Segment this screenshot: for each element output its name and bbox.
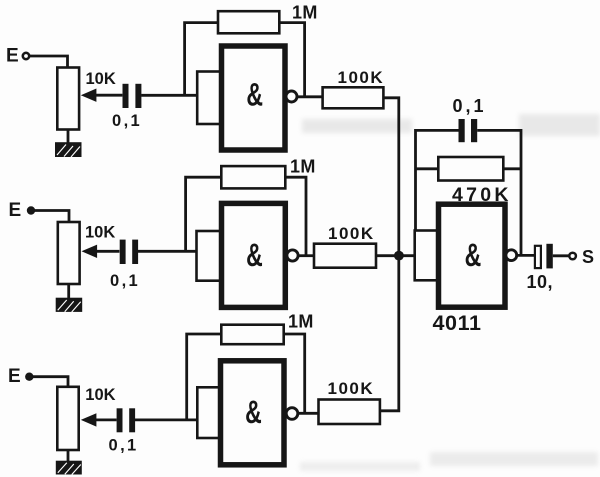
wire R9 to summing node [380,256,399,411]
wire U1a output to R3 [297,95,322,98]
svg-text:4011: 4011 [433,311,482,335]
gate U1b body [222,203,286,307]
wire R6 to final gate input [376,254,415,257]
wire C2 to gate U1b input [138,250,198,253]
junction summing node [394,251,404,261]
resistor R2 1M body [218,11,279,33]
feedback wire right R8 to output [284,334,305,413]
ghost smudge bottom [300,452,598,471]
gate U1b symbol & [246,237,263,273]
label 0,1 (C3) [109,437,139,455]
label 1M (R5) [290,156,316,176]
resistor R3 100K body [323,87,384,108]
label 10K (P2) [85,224,115,242]
gate U2 output bubble [506,250,517,261]
wire P2 to ground [67,284,70,298]
ground GND2 [56,298,82,312]
label 100K (R6) [328,224,375,243]
feedback wire right R5 to output [285,177,306,255]
svg-text:1M: 1M [292,2,318,22]
label 10, (C8) [527,272,554,292]
terminal S [569,253,576,260]
feedback wire left R8 [187,334,222,420]
capacitor C1 0,1 [123,84,142,108]
ground GND1 [55,142,82,157]
node E3 label [8,366,21,387]
resistor R6 100K body [314,244,376,268]
capacitor C2 0,1 [120,240,138,264]
feedback wire left R5 [186,177,222,251]
label 4011 (U2) [433,311,482,335]
capacitor C7 0,1 top [459,119,478,142]
label 10K (P1) [86,70,116,88]
capacitor C3 0,1 [117,408,135,432]
label 100K (R3) [338,68,385,87]
wire 470K right [503,167,521,170]
gate U1c input tie box [197,387,221,438]
svg-text:&: & [246,237,263,273]
wire E3 to pot P3 [31,377,68,387]
node E2 label [9,200,22,221]
wiper arrow P3 [96,418,117,421]
svg-text:&: & [465,237,482,273]
gate U1a output bubble [286,91,297,102]
label 0,1 (C7) [453,96,487,116]
label 1M (R8) [288,312,314,332]
wire E1 to pot P1 [29,56,67,68]
svg-text:100K: 100K [338,68,385,87]
gate U1b output bubble [287,250,298,261]
svg-text:E: E [9,200,22,221]
terminal E1 [23,53,29,59]
label 0,1 (C1) [112,112,142,130]
svg-text:100K: 100K [328,224,375,243]
feedback wire left R2 [185,23,218,96]
svg-text:10K: 10K [86,70,116,88]
svg-text:0,1: 0,1 [112,112,142,130]
wire U2 output to C8 [517,254,535,257]
ground GND3 [56,461,82,475]
svg-text:E: E [6,46,19,67]
potentiometer P2 10K body [58,222,80,284]
wire U1b output to R6 [298,254,314,257]
svg-text:10,: 10, [527,272,554,292]
wire 470K left [416,167,439,170]
gate U1a symbol & [246,77,263,113]
wire C3 to gate U1c input [135,418,198,421]
wire P3 to ground [67,450,70,461]
svg-text:0,1: 0,1 [109,437,139,455]
gate U1c body [221,361,285,465]
label 1M (R2) [292,2,318,22]
gate U1c symbol & [245,394,262,430]
feedback rail left U2 [416,130,459,231]
resistor R5 1M body [221,166,285,188]
resistor R8 1M body [221,325,283,345]
svg-text:1M: 1M [288,312,314,332]
feedback wire right R2 to output [279,23,304,97]
terminal E3 [25,373,33,381]
ghost smudge top mid [302,119,412,133]
label 0,1 (C2) [110,272,140,290]
svg-text:S: S [582,247,594,267]
svg-text:0,1: 0,1 [453,96,487,116]
feedback rail right U2 [477,130,521,254]
gate U2 body 4011 [439,204,506,307]
svg-text:&: & [246,77,263,113]
wiper arrow P1 [96,94,122,97]
capacitor C8 10uF electrolytic [535,244,553,269]
label 470K (R10) [452,184,512,206]
node E1 label [6,46,19,67]
svg-text:&: & [245,394,262,430]
potentiometer P1 10K body [57,68,79,130]
gate U2 input tie box [415,231,440,281]
gate U2 symbol & [465,237,482,273]
resistor R10 470K body [438,157,503,181]
wiper arrow P2 [97,250,120,253]
wire U1c output to R9 [298,412,319,415]
wire C8 to terminal S [553,254,570,257]
resistor R9 100K body [319,400,380,425]
terminal E2 [27,206,35,214]
wire E2 to pot P2 [33,211,69,223]
svg-text:1M: 1M [290,156,316,176]
svg-text:10K: 10K [85,386,115,404]
gate U1a input tie box [197,72,222,125]
ghost smudge top right [519,114,600,136]
svg-text:E: E [8,366,21,387]
wire P1 to ground [67,130,70,143]
svg-text:10K: 10K [85,224,115,242]
potentiometer P3 10K body [57,387,78,450]
svg-text:0,1: 0,1 [110,272,140,290]
wire R3 to summing node [383,98,398,256]
svg-text:100K: 100K [328,379,375,398]
node S label [582,247,594,267]
gate U1c output bubble [286,408,298,420]
gate U1a body [222,46,286,150]
label 10K (P3) [85,386,115,404]
gate U1b input tie box [197,231,222,281]
wire C1 to gate U1a input [141,94,198,97]
label 100K (R9) [328,379,375,398]
